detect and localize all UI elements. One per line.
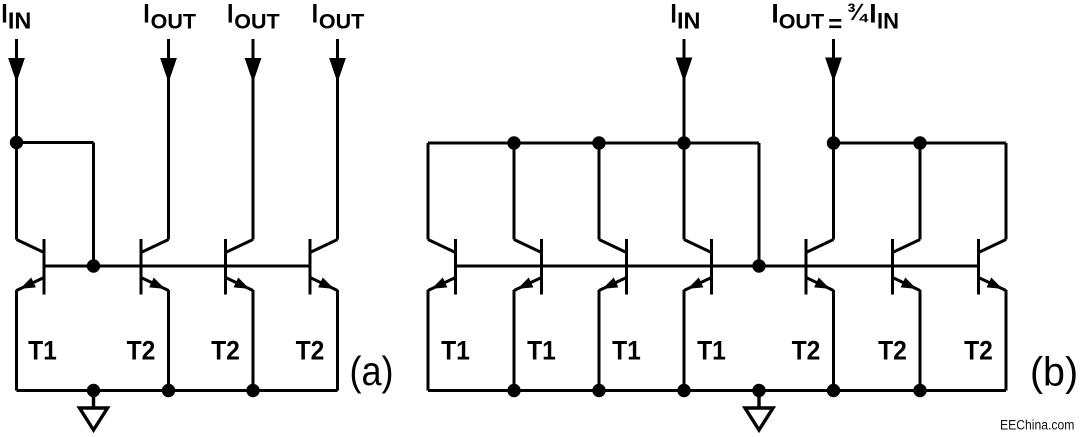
wire T2#1 emitter (a) [167,290,170,391]
junction dot top rail x=684 (b) [677,136,690,149]
emitter arrow T2#1 (a) [149,278,167,294]
junction dot top rail T2#2 (b) [913,136,926,149]
emitter arrow T2#3 (b) [987,278,1005,294]
wire diode-connect vertical (a) [92,143,95,267]
svg-text:T1: T1 [527,337,556,366]
junction dot base node (a) [87,259,100,272]
wire T1#3 emitter (b) [598,290,601,391]
wire T1#3 collector (b) [598,143,601,240]
wire I_OUT2 vertical (a) [252,39,255,240]
wire T1#2 emitter (b) [513,290,516,391]
label T2 at 892.5 (b) [878,337,907,366]
label I_OUT2 (a) [227,0,280,34]
svg-text:T2: T2 [127,337,156,366]
wire T2#2 emitter (a) [252,290,255,391]
wire T2#3 collector (b) [1005,143,1008,240]
wire T2#2 collector (b) [919,143,922,240]
junction dot top rail I_OUT (b) [827,136,840,149]
emitter arrow T1#1 (b) [429,278,447,294]
junction dot emitter T2#2 (a) [246,384,259,397]
svg-text:OUT: OUT [779,10,824,34]
label T2 at 310 (a) [296,337,325,366]
svg-text:IN: IN [677,8,701,34]
label T2 at 225.5 (a) [211,337,240,366]
wire T1 emitter (a) [15,290,18,391]
svg-text:T1: T1 [612,337,641,366]
emitter arrow T1 (a) [18,278,36,294]
current arrow I_IN (b) [676,58,693,83]
wire I_OUT vertical (b) [832,39,835,143]
label (b) [1030,349,1078,395]
current arrow I_OUT (b) [825,58,842,83]
svg-text:EEChina.com: EEChina.com [1000,417,1074,433]
label I_IN (a) [1,0,31,34]
emitter arrow T1#3 (b) [600,278,618,294]
wire T2#3 emitter (a) [336,290,339,391]
emitter arrow T2#2 (a) [234,278,252,294]
junction dot top rail x=514 (b) [507,136,520,149]
label T2 at 141 (a) [127,337,156,366]
label I_OUT = 3/4 I_IN (b) [771,0,899,38]
ground symbol (a) [80,391,108,431]
svg-text:(a): (a) [349,349,393,395]
label (a) [349,349,393,395]
svg-text:T2: T2 [964,337,993,366]
wire I_OUT1 vertical (a) [167,39,170,240]
svg-text:IN: IN [877,9,899,34]
wire T1#1 emitter (b) [427,290,430,391]
svg-text:I: I [227,0,233,29]
wire I_OUT3 vertical (a) [336,39,339,240]
wire T2#1 collector (b) [832,143,835,240]
svg-text:T2: T2 [211,337,240,366]
transistor T1#3 (b) [599,239,627,295]
wire T1#2 collector (b) [513,143,516,240]
emitter arrow T1#4 (b) [685,278,703,294]
wire I_IN vertical (b) [683,39,686,143]
label I_IN (b) [670,0,700,34]
transistor T2#3 (a) [310,239,338,295]
transistor T2#2 (a) [226,239,254,295]
wire I_IN vertical (a) [15,39,18,240]
transistor T2#3 (b) [979,239,1007,295]
wire T2#3 emitter (b) [1005,290,1008,391]
label T1 at 455.5 (b) [441,337,470,366]
current arrow I_IN (a) [8,58,25,83]
transistor T2#2 (b) [893,239,921,295]
svg-text:=: = [828,11,842,38]
label T1 at 541.5 (b) [527,337,556,366]
current arrow I_OUT3 (a) [329,58,346,83]
junction dot emitter T2#1 (a) [162,384,175,397]
wire T1#1 collector (b) [427,143,430,240]
wire top rail right (b) [834,142,1007,145]
svg-text:T1: T1 [28,337,57,366]
svg-text:T2: T2 [296,337,325,366]
wire T1#4 emitter (b) [683,290,686,391]
svg-text:T2: T2 [792,337,821,366]
current arrow I_OUT2 (a) [245,58,262,83]
svg-text:¾: ¾ [847,0,869,26]
svg-text:T2: T2 [878,337,907,366]
label I_OUT3 (a) [312,0,365,34]
transistor T2#1 (a) [141,239,169,295]
label T2 at 806 (b) [792,337,821,366]
wire T2#2 emitter (b) [919,290,922,391]
emitter arrow T2#2 (b) [901,278,919,294]
transistor T1#2 (b) [514,239,542,295]
wire T2#1 emitter (b) [832,290,835,391]
svg-text:OUT: OUT [151,10,196,34]
svg-text:(b): (b) [1030,349,1078,395]
svg-text:I: I [1,0,7,29]
label T1 at 711.5 (b) [697,337,726,366]
label T1 at 626.5 (b) [612,337,641,366]
svg-text:IN: IN [8,8,32,34]
label T2 at 978.5 (b) [964,337,993,366]
svg-text:I: I [143,0,149,29]
junction dot bottom rail x=684 (b) [677,384,690,397]
svg-text:I: I [869,0,876,28]
junction dot bottom rail x=759 (b) [752,384,765,397]
junction dot base node (b) [752,259,765,272]
junction dot top rail x=599 (b) [592,136,605,149]
svg-text:T1: T1 [441,337,470,366]
label T1 (a) [28,337,57,366]
junction dot bottom rail x=920 (b) [913,384,926,397]
watermark EEChina.com [1000,417,1074,433]
wire diode-connect horizontal (a) [17,141,94,144]
junction dot bottom rail x=599 (b) [592,384,605,397]
transistor T2#1 (b) [806,239,834,295]
emitter arrow T2#3 (a) [318,278,336,294]
svg-text:I: I [312,0,318,29]
transistor T1#1 (b) [428,239,456,295]
svg-text:I: I [771,0,778,28]
transistor T1 (a) [17,239,45,295]
junction dot input node (a) [10,136,23,149]
svg-text:I: I [670,0,676,29]
junction dot bottom rail x=833.5 (b) [827,384,840,397]
emitter arrow T1#2 (b) [515,278,533,294]
transistor T1#4 (b) [684,239,712,295]
svg-text:OUT: OUT [234,10,279,34]
current arrow I_OUT1 (a) [160,58,177,83]
wire emitter rail (a) [17,389,338,392]
wire T1#4 collector (b) [683,143,686,240]
svg-text:T1: T1 [697,337,726,366]
emitter arrow T2#1 (b) [814,278,832,294]
wire emitter rail (b) [428,389,1006,392]
label I_OUT1 (a) [143,0,196,34]
junction dot bottom rail x=514 (b) [507,384,520,397]
ground symbol (b) [745,391,773,431]
wire top rail left (b) [428,142,759,145]
wire base rail (a) [44,265,310,268]
wire base rail (b) [456,265,979,268]
svg-text:OUT: OUT [319,10,364,34]
wire diode-connect drop (b) [758,143,761,266]
junction dot ground node (a) [87,384,100,397]
